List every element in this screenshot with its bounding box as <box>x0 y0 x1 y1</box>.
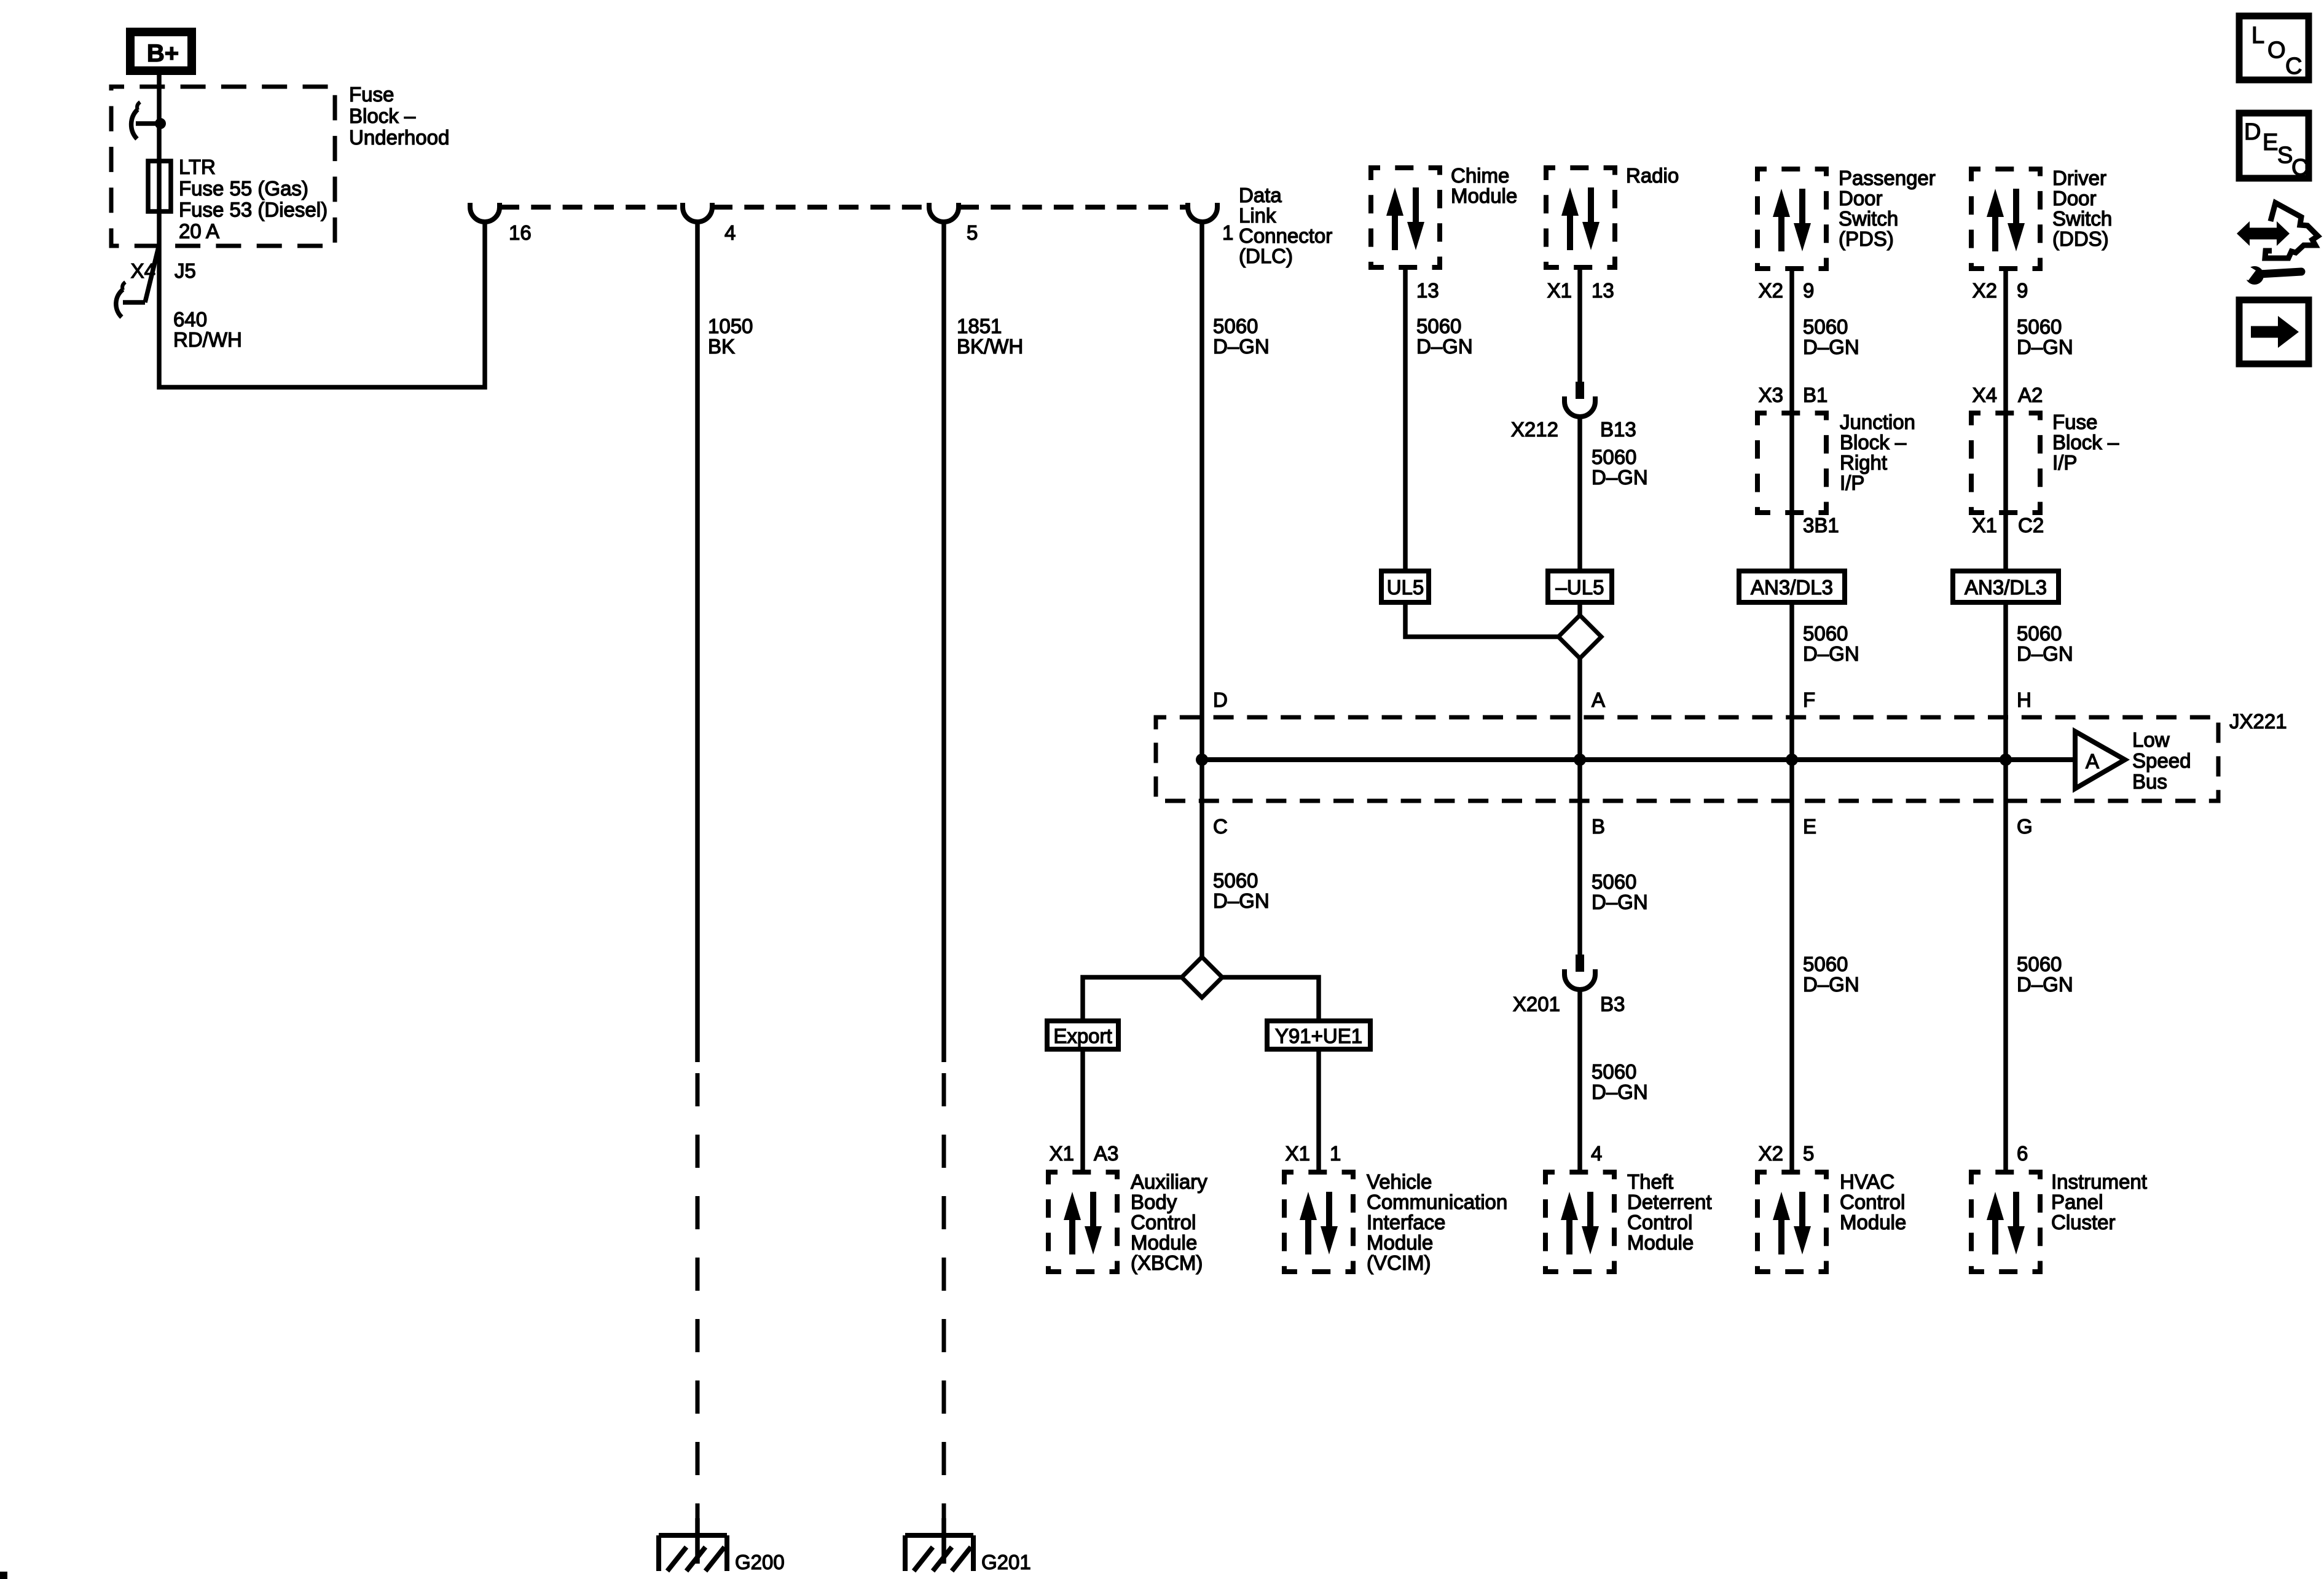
svg-text:G200: G200 <box>735 1551 785 1573</box>
svg-text:Module: Module <box>1840 1211 1906 1234</box>
svg-text:Switch: Switch <box>2052 207 2112 230</box>
svg-text:D–GN: D–GN <box>1803 642 1859 665</box>
svg-text:AN3/DL3: AN3/DL3 <box>1751 576 1833 599</box>
svg-text:(XBCM): (XBCM) <box>1131 1251 1203 1274</box>
svg-text:5060: 5060 <box>1213 869 1258 892</box>
svg-text:D–GN: D–GN <box>2017 336 2073 358</box>
svg-text:9: 9 <box>1803 279 1814 302</box>
svg-text:5060: 5060 <box>1803 315 1848 338</box>
svg-text:X2: X2 <box>1973 279 1997 302</box>
svg-text:5060: 5060 <box>1592 1060 1636 1083</box>
svg-text:RD/WH: RD/WH <box>173 328 242 351</box>
svg-text:5060: 5060 <box>1592 446 1636 468</box>
svg-text:D–GN: D–GN <box>1213 335 1270 358</box>
svg-text:X201: X201 <box>1513 993 1560 1015</box>
svg-text:JX221: JX221 <box>2229 710 2287 733</box>
svg-text:UL5: UL5 <box>1387 576 1424 599</box>
svg-text:Body: Body <box>1131 1191 1177 1213</box>
svg-text:D–GN: D–GN <box>1592 466 1648 489</box>
svg-text:D–GN: D–GN <box>1416 335 1473 358</box>
svg-text:5060: 5060 <box>2017 315 2062 338</box>
svg-text:Auxiliary: Auxiliary <box>1131 1170 1207 1193</box>
svg-text:S: S <box>2277 143 2293 168</box>
svg-text:O: O <box>2267 37 2286 63</box>
svg-text:Control: Control <box>1840 1191 1905 1213</box>
svg-text:A2: A2 <box>2018 384 2043 406</box>
svg-text:Block –: Block – <box>1840 431 1907 454</box>
svg-text:Module: Module <box>1131 1231 1197 1254</box>
svg-text:Communication: Communication <box>1367 1191 1507 1213</box>
svg-text:D: D <box>1213 688 1228 711</box>
svg-text:A: A <box>1592 688 1605 711</box>
svg-text:B: B <box>1592 815 1605 838</box>
svg-text:G: G <box>2017 815 2033 838</box>
svg-text:Export: Export <box>1053 1025 1112 1047</box>
svg-text:1: 1 <box>1222 221 1233 244</box>
svg-text:Bus: Bus <box>2132 770 2167 793</box>
svg-text:13: 13 <box>1592 279 1614 302</box>
svg-text:Speed: Speed <box>2132 749 2191 772</box>
svg-text:F: F <box>1803 688 1815 711</box>
svg-text:Right: Right <box>1840 451 1887 474</box>
svg-text:Link: Link <box>1239 204 1276 227</box>
svg-text:E: E <box>2263 130 2278 156</box>
svg-text:D–GN: D–GN <box>1592 1081 1648 1103</box>
svg-text:16: 16 <box>509 221 532 244</box>
svg-text:Block –: Block – <box>349 104 416 127</box>
svg-text:640: 640 <box>173 308 207 331</box>
svg-text:Control: Control <box>1131 1211 1196 1234</box>
svg-text:Deterrent: Deterrent <box>1627 1191 1712 1213</box>
svg-text:5060: 5060 <box>2017 622 2062 645</box>
svg-text:Passenger: Passenger <box>1839 167 1936 189</box>
svg-text:Cluster: Cluster <box>2051 1211 2116 1234</box>
svg-text:Panel: Panel <box>2051 1191 2103 1213</box>
svg-text:C: C <box>2285 53 2302 79</box>
svg-text:5060: 5060 <box>1803 953 1848 975</box>
svg-text:Fuse: Fuse <box>349 83 394 106</box>
svg-text:A: A <box>2086 750 2099 773</box>
svg-text:H: H <box>2017 688 2032 711</box>
svg-text:D: D <box>2244 119 2261 145</box>
svg-text:BK: BK <box>708 335 735 358</box>
svg-text:–UL5: –UL5 <box>1556 576 1604 599</box>
svg-text:B13: B13 <box>1600 418 1636 441</box>
svg-text:Driver: Driver <box>2052 167 2106 189</box>
svg-text:C: C <box>1213 815 1228 838</box>
svg-text:5: 5 <box>967 221 978 244</box>
svg-text:HVAC: HVAC <box>1840 1170 1894 1193</box>
svg-text:Y91+UE1: Y91+UE1 <box>1275 1025 1362 1047</box>
svg-text:Theft: Theft <box>1627 1170 1673 1193</box>
svg-text:C: C <box>2291 155 2308 181</box>
svg-text:Module: Module <box>1627 1231 1694 1254</box>
svg-text:Vehicle: Vehicle <box>1367 1170 1432 1193</box>
svg-text:G201: G201 <box>981 1551 1031 1573</box>
svg-text:D–GN: D–GN <box>1803 973 1859 996</box>
svg-text:X1: X1 <box>1547 279 1572 302</box>
svg-text:Fuse 55 (Gas): Fuse 55 (Gas) <box>179 177 308 200</box>
svg-text:(VCIM): (VCIM) <box>1367 1251 1431 1274</box>
svg-text:3B1: 3B1 <box>1803 514 1839 537</box>
svg-text:Instrument: Instrument <box>2051 1170 2147 1193</box>
svg-text:20 A: 20 A <box>179 219 219 242</box>
svg-text:B+: B+ <box>147 40 179 67</box>
svg-text:Control: Control <box>1627 1211 1692 1234</box>
svg-text:L: L <box>2251 23 2264 49</box>
svg-text:D–GN: D–GN <box>2017 973 2073 996</box>
svg-text:6: 6 <box>2017 1142 2028 1165</box>
svg-text:Module: Module <box>1367 1231 1433 1254</box>
svg-text:1851: 1851 <box>957 315 1002 337</box>
svg-text:X1: X1 <box>1286 1142 1310 1165</box>
svg-text:5060: 5060 <box>1213 315 1258 337</box>
svg-text:BK/WH: BK/WH <box>957 335 1023 358</box>
svg-text:Junction: Junction <box>1840 411 1915 433</box>
svg-text:X2: X2 <box>1759 1142 1783 1165</box>
svg-text:(DLC): (DLC) <box>1239 245 1293 267</box>
svg-text:Fuse: Fuse <box>2052 411 2097 433</box>
svg-text:4: 4 <box>724 221 736 244</box>
svg-text:Fuse 53 (Diesel): Fuse 53 (Diesel) <box>179 199 328 221</box>
svg-text:5060: 5060 <box>2017 953 2062 975</box>
svg-text:(PDS): (PDS) <box>1839 227 1894 250</box>
svg-text:13: 13 <box>1416 279 1439 302</box>
svg-text:Connector: Connector <box>1239 224 1332 247</box>
svg-text:Data: Data <box>1239 184 1282 207</box>
svg-text:C2: C2 <box>2018 514 2044 537</box>
svg-text:1050: 1050 <box>708 315 753 337</box>
svg-text:Module: Module <box>1451 184 1517 207</box>
svg-text:X1: X1 <box>1973 514 1997 537</box>
svg-text:B3: B3 <box>1600 993 1625 1015</box>
svg-text:AN3/DL3: AN3/DL3 <box>1965 576 2047 599</box>
svg-text:Interface: Interface <box>1367 1211 1445 1234</box>
svg-text:9: 9 <box>2017 279 2028 302</box>
svg-text:Radio: Radio <box>1626 164 1679 187</box>
svg-text:Low: Low <box>2132 728 2170 751</box>
svg-text:4: 4 <box>1591 1142 1602 1165</box>
svg-text:B1: B1 <box>1803 384 1827 406</box>
svg-text:I/P: I/P <box>2052 451 2077 474</box>
svg-text:5060: 5060 <box>1803 622 1848 645</box>
svg-text:X1: X1 <box>1050 1142 1074 1165</box>
svg-text:I/P: I/P <box>1840 471 1864 494</box>
svg-text:LTR: LTR <box>179 156 216 178</box>
svg-text:Switch: Switch <box>1839 207 1898 230</box>
svg-text:A3: A3 <box>1094 1142 1118 1165</box>
svg-text:(DDS): (DDS) <box>2052 227 2109 250</box>
svg-text:D–GN: D–GN <box>1803 336 1859 358</box>
svg-text:Block –: Block – <box>2052 431 2119 454</box>
svg-text:X2: X2 <box>1759 279 1783 302</box>
svg-text:Underhood: Underhood <box>349 126 449 149</box>
svg-text:Door: Door <box>2052 187 2097 210</box>
svg-text:X3: X3 <box>1759 384 1783 406</box>
svg-text:D–GN: D–GN <box>1213 889 1270 912</box>
svg-text:5060: 5060 <box>1592 870 1636 893</box>
svg-text:1: 1 <box>1330 1142 1341 1165</box>
svg-text:5: 5 <box>1803 1142 1814 1165</box>
svg-text:Chime: Chime <box>1451 164 1509 187</box>
svg-text:X212: X212 <box>1511 418 1558 441</box>
svg-text:J5: J5 <box>175 259 196 282</box>
svg-text:X4: X4 <box>1973 384 1997 406</box>
svg-text:E: E <box>1803 815 1816 838</box>
svg-text:D–GN: D–GN <box>2017 642 2073 665</box>
svg-text:5060: 5060 <box>1416 315 1461 337</box>
svg-text:Door: Door <box>1839 187 1883 210</box>
svg-text:D–GN: D–GN <box>1592 891 1648 913</box>
